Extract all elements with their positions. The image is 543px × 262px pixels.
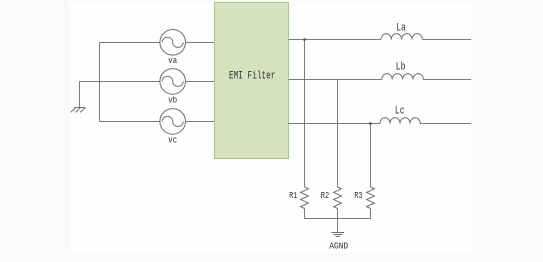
wire: R2 bottom lead bbox=[337, 209, 339, 219]
schematic white canvas bbox=[70, 2, 471, 253]
resistor R3 bbox=[367, 187, 375, 209]
svg-text:Lc: Lc bbox=[395, 106, 405, 118]
inductor Lc bbox=[380, 118, 420, 124]
junction node phase a / R1 tap bbox=[303, 38, 306, 41]
svg-text:vb: vb bbox=[168, 95, 177, 105]
svg-text:La: La bbox=[396, 22, 406, 34]
wire: neutral bus vertical bbox=[99, 43, 101, 122]
wire: phase a, source va to EMI filter bbox=[186, 42, 216, 44]
wire: bottom bus bbox=[305, 218, 371, 220]
wire: R1 bottom lead bbox=[304, 209, 306, 219]
AC source va bbox=[160, 30, 186, 56]
svg-text:Lb: Lb bbox=[396, 61, 406, 73]
wire: R3 bottom lead bbox=[370, 209, 372, 219]
junction node phase c / R3 tap bbox=[369, 122, 372, 125]
wire: phase a, after La to right edge bbox=[422, 39, 471, 41]
wire: phase a, EMI filter to inductor La bbox=[289, 39, 382, 41]
wire: phase c, after Lc to right edge bbox=[420, 123, 471, 125]
svg-text:vc: vc bbox=[168, 136, 177, 146]
wire: ground stub vertical bbox=[79, 82, 81, 108]
wire: tap phase c down to R3 bbox=[370, 124, 372, 188]
svg-text:R1: R1 bbox=[289, 190, 298, 201]
AC source vb bbox=[160, 69, 186, 95]
wire: phase b left, ground stub to source vb bbox=[80, 81, 161, 83]
wire: phase c, EMI filter to inductor Lc bbox=[289, 123, 381, 125]
svg-text:R3: R3 bbox=[354, 190, 363, 201]
wire: tap phase a down to R1 bbox=[304, 40, 306, 188]
wire: phase b, EMI filter to inductor Lb bbox=[289, 79, 382, 81]
EMI Filter box U1 bbox=[215, 3, 289, 159]
ground AGND symbol bbox=[332, 233, 345, 237]
wire: phase b, source vb to EMI filter bbox=[186, 81, 216, 83]
wire: phase c, source vc to EMI filter bbox=[186, 121, 216, 123]
resistor R1 bbox=[301, 187, 309, 209]
ground (earth) symbol left bbox=[71, 108, 86, 113]
svg-text:EMI Filter: EMI Filter bbox=[229, 71, 275, 83]
AC source vc bbox=[160, 109, 186, 135]
wire: phase a left, bus to source va bbox=[100, 42, 161, 44]
wire: AGND stub bbox=[337, 219, 339, 232]
svg-text:R2: R2 bbox=[321, 190, 330, 201]
svg-text:AGND: AGND bbox=[329, 241, 348, 252]
wire: tap phase b down to R2 bbox=[337, 80, 339, 188]
wire: phase b, after Lb to right edge bbox=[423, 79, 471, 81]
resistor R2 bbox=[334, 187, 342, 209]
inductor La bbox=[381, 34, 422, 40]
wire: phase c left, bus to source vc bbox=[100, 121, 161, 123]
svg-text:va: va bbox=[168, 56, 177, 66]
inductor Lb bbox=[382, 74, 424, 80]
